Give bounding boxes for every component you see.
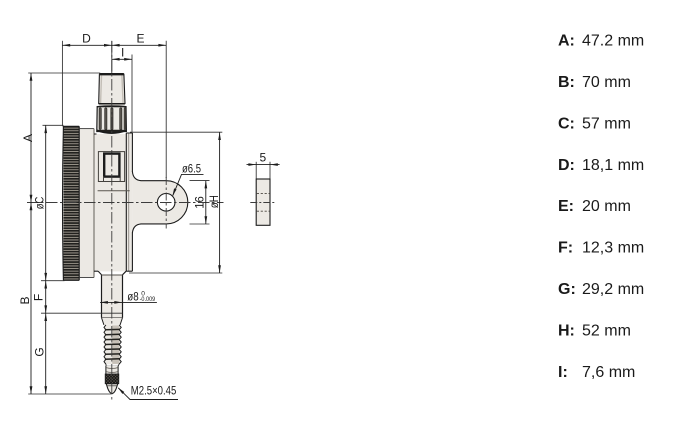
stem o8 [102,275,123,318]
svg-text:12,3 mm: 12,3 mm [582,240,644,257]
svg-text:ø8: ø8 [127,292,138,304]
stem-spindle taper [102,318,123,325]
dimension o8 line [100,301,157,304]
bezel knurled band [63,126,80,280]
svg-text:M2.5×0.45: M2.5×0.45 [131,386,177,398]
bezel ring edges [79,129,94,278]
value table [558,33,644,381]
svg-text:B:: B: [558,74,575,91]
svg-text:B: B [18,296,32,304]
svg-text:E: E [136,32,144,46]
centre axis line [111,41,113,401]
svg-text:18,1 mm: 18,1 mm [582,157,644,174]
dimension 16 line [205,181,208,224]
svg-text:H:: H: [558,322,575,339]
svg-text:D: D [82,32,91,46]
svg-text:I: I [121,46,124,60]
svg-text:C:: C: [558,115,575,132]
svg-text:F: F [32,294,46,301]
knurled contact nut [105,374,119,384]
svg-text:29,2 mm: 29,2 mm [582,281,644,298]
svg-text:G:: G: [558,281,576,298]
svg-text:øH: øH [209,195,221,208]
housing fill [94,134,126,271]
housing outline [94,133,132,271]
dimension I line [112,58,132,61]
lug hole o6.5 [157,194,175,212]
svg-text:I:: I: [558,364,568,381]
threaded spindle [104,325,121,366]
leader o6.5 [172,174,203,196]
crown grooves [99,108,126,130]
svg-text:7,6 mm: 7,6 mm [582,364,635,381]
dimension H line [218,132,221,273]
svg-text:-0.009: -0.009 [140,296,156,303]
lug (mounting ear) [132,172,187,234]
svg-text:5: 5 [260,151,267,165]
svg-text:47.2 mm: 47.2 mm [582,33,644,50]
dimension D-E line [62,44,166,47]
svg-text:20 mm: 20 mm [582,198,631,215]
svg-text:57 mm: 57 mm [582,115,631,132]
side plate view [250,179,276,225]
svg-text:E:: E: [558,198,574,215]
housing bottom shoulder [94,271,132,275]
horizontal centre line [27,202,224,204]
leader M2.5 [118,387,178,399]
dimension 5 line [247,162,280,179]
svg-text:16: 16 [195,196,207,209]
extension lines [28,41,222,394]
knurled crown [97,106,127,131]
rear plate right edge [131,133,133,271]
svg-text:D:: D: [558,157,575,174]
dimension A-B line [30,73,33,394]
svg-text:F:: F: [558,240,573,257]
spindle neck [106,366,118,374]
top cap [99,74,125,105]
lug hole vertical centre line [165,177,167,229]
dimension C-F-G line [44,125,47,394]
svg-text:A: A [21,134,35,142]
crown bottom dark rim [97,130,127,134]
svg-text:G: G [33,347,47,356]
svg-text:A:: A: [558,33,575,50]
svg-text:ø6.5: ø6.5 [182,164,201,176]
rear plate fill [126,133,132,271]
svg-text:52 mm: 52 mm [582,322,631,339]
svg-text:øC: øC [35,197,47,210]
contact point tip [106,384,118,394]
bezel face ring fill [79,129,94,278]
svg-text:70 mm: 70 mm [582,74,631,91]
stem clamp detail [98,152,130,191]
body fills [79,129,132,278]
